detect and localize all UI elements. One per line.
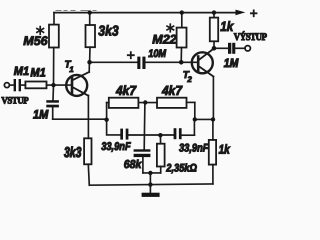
capacitor 68k middle <box>134 149 151 173</box>
wire input <box>9 84 13 86</box>
terminal VYSTUP <box>245 46 250 51</box>
svg-text:1M: 1M <box>224 57 239 71</box>
resistor 3k3 bottom <box>84 138 91 185</box>
wire twin-T right branch <box>194 102 213 135</box>
svg-text:M56: M56 <box>23 34 48 48</box>
svg-text:68k: 68k <box>124 158 143 171</box>
svg-text:M1: M1 <box>14 65 29 78</box>
svg-text:33,9nF: 33,9nF <box>179 142 209 154</box>
svg-text:1: 1 <box>69 65 74 74</box>
capacitor 10M <box>137 57 197 69</box>
transistor T1 <box>66 62 89 138</box>
capacitor 33,9nF left <box>120 129 173 140</box>
wire bottom bar of twin-T <box>143 172 161 174</box>
resistor 2,35k <box>157 135 165 173</box>
svg-text:4k7: 4k7 <box>115 83 137 98</box>
svg-text:M1: M1 <box>30 67 45 80</box>
svg-text:3k3: 3k3 <box>98 22 119 39</box>
resistor M1 <box>25 82 72 89</box>
resistor 4k7 left <box>107 98 157 108</box>
resistor 4k7 right <box>157 98 195 108</box>
capacitor 1M output <box>228 43 245 54</box>
label T1 <box>65 60 75 75</box>
svg-text:1k: 1k <box>219 143 231 157</box>
capacitor M1 <box>14 79 26 91</box>
output wire <box>214 47 228 49</box>
ground <box>142 184 160 197</box>
resistor 1k bottom <box>209 119 216 183</box>
wire T1 collector to C coupling row <box>90 61 138 63</box>
svg-text:2: 2 <box>186 75 192 84</box>
svg-text:1k: 1k <box>220 18 234 34</box>
capacitor 1M lower left <box>46 85 59 119</box>
supply arrow + <box>236 10 257 17</box>
svg-text:4k7: 4k7 <box>161 83 183 98</box>
label T2 <box>183 70 193 84</box>
asterisk for M56 <box>37 27 44 35</box>
wire twin-T left branch <box>107 103 121 135</box>
terminal VSTUP <box>4 83 9 88</box>
svg-text:10M: 10M <box>148 48 167 60</box>
resistor 3k3 top <box>86 13 96 63</box>
svg-text:VSTUP: VSTUP <box>1 95 29 106</box>
wire bottom rail <box>89 184 213 185</box>
plus sign of 10M <box>128 52 134 58</box>
wire twin-T middle branch <box>143 103 146 150</box>
resistor 1k top <box>210 13 218 49</box>
resistor M22 <box>177 13 187 63</box>
svg-text:1M: 1M <box>33 108 49 121</box>
svg-text:3k3: 3k3 <box>64 145 81 161</box>
svg-text:33,9nF: 33,9nF <box>101 141 131 153</box>
asterisk for M22 <box>167 24 174 32</box>
transistor T2 <box>192 48 214 119</box>
svg-text:M22: M22 <box>152 32 176 46</box>
resistor M56 <box>49 13 59 86</box>
wire 1M cap to twin-T left branch <box>53 118 107 120</box>
wire top supply rail <box>54 12 236 14</box>
svg-text:VÝSTUP: VÝSTUP <box>234 31 268 43</box>
capacitor 33,9nF right <box>174 128 195 139</box>
svg-text:2,35kΩ: 2,35kΩ <box>165 163 197 175</box>
wire to ground rail <box>149 173 151 185</box>
